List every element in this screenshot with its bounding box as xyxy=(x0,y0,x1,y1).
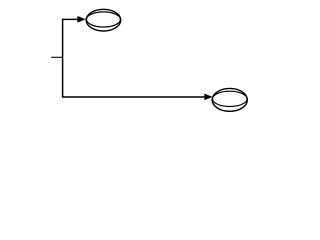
arrowhead into node N2 xyxy=(205,94,212,100)
wire: bottom branch to node N2 xyxy=(62,96,205,98)
node N2 (disk): outer ellipse xyxy=(212,88,247,111)
wire: vertical trunk xyxy=(62,19,64,97)
junction tick at trunk midpoint xyxy=(51,56,62,58)
node N1 (disk): outer ellipse xyxy=(86,9,121,31)
node N1 (disk): inner top-face ellipse xyxy=(86,12,120,27)
wire: top branch to node N1 xyxy=(62,18,78,20)
node N2 (disk): inner top-face ellipse xyxy=(212,91,247,106)
arrowhead into node N1 xyxy=(78,16,86,22)
